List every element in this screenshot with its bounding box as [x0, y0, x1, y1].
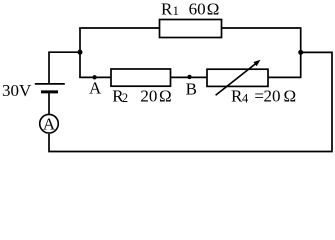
- node A dot: [92, 75, 96, 79]
- svg-text:R: R: [161, 0, 173, 18]
- node B dot: [187, 75, 191, 79]
- wire: output from right junction, right side down, bottom, up to ammeter: [49, 52, 332, 151]
- battery negative plate (short thick): [41, 90, 58, 93]
- svg-text:A: A: [89, 79, 102, 98]
- svg-text:1: 1: [173, 4, 179, 18]
- rheostat R4 arrow shaft: [216, 63, 256, 95]
- wire: battery positive terminal up and right to left junction: [49, 52, 81, 84]
- svg-text:20: 20: [264, 87, 281, 106]
- node: right junction dot: [298, 50, 303, 55]
- svg-text:20: 20: [140, 86, 157, 105]
- svg-text:4: 4: [242, 92, 249, 106]
- resistor R1 body: [160, 20, 222, 38]
- rheostat R4 body: [207, 69, 268, 86]
- wire: middle branch right segment from R4 to right rail: [268, 76, 302, 78]
- wire: middle branch segment between R2 and R4: [171, 76, 208, 78]
- wire: right rail vertical between top branch and middle branch: [300, 28, 302, 78]
- svg-text:B: B: [186, 80, 197, 99]
- ammeter A1 circle: [40, 114, 59, 133]
- resistor R2 body: [111, 69, 171, 86]
- svg-text:2: 2: [122, 91, 128, 105]
- wire: top branch left segment to R1: [79, 27, 159, 29]
- wire: top branch right segment from R1 to right rail: [222, 27, 302, 29]
- svg-text:Ω: Ω: [159, 86, 172, 105]
- svg-text:Ω: Ω: [207, 0, 220, 19]
- svg-text:A: A: [43, 114, 56, 133]
- node: left junction dot: [78, 50, 83, 55]
- wire: left rail vertical between top branch and middle branch: [79, 28, 81, 78]
- svg-text:60: 60: [189, 0, 206, 19]
- svg-text:30V: 30V: [2, 81, 32, 100]
- battery positive plate (long): [35, 83, 65, 85]
- svg-text:Ω: Ω: [284, 87, 297, 106]
- rheostat R4 arrowhead: [253, 60, 260, 66]
- wire: battery negative down to ammeter: [48, 92, 50, 115]
- wire: middle branch left segment to R2: [79, 76, 111, 78]
